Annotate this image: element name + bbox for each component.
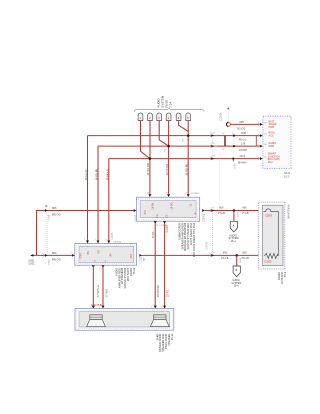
svg-text:806: 806 [52,206,57,210]
fuse pin 5 [176,113,181,121]
smart junction box (SJB) [263,116,291,168]
svg-text:B: B [236,268,238,272]
radio right pin arrow [202,209,205,212]
wire amp to antenna (shield run) [142,254,260,256]
svg-text:C2280B: C2280B [206,241,208,250]
svg-text:1174: 1174 [240,155,246,158]
wire from fuse pin 3 [159,121,168,146]
amp left pin arrow [72,254,75,257]
svg-text:15-4: 15-4 [231,240,236,243]
junction dot shield [235,254,238,257]
svg-text:16 RD-BK: 16 RD-BK [95,169,99,181]
svg-text:26 BN: 26 BN [152,203,155,210]
amp top pin arrows [86,241,89,244]
svg-text:S/R: S/R [144,210,147,214]
speaker box [75,309,174,331]
wire left vertical 1 [87,136,89,241]
ground wire horizontal [31,254,72,256]
speaker feed wire right (from radio) [164,223,166,306]
svg-text:606: 606 [242,206,247,209]
svg-text:179: 179 [241,143,246,146]
svg-text:C2280: C2280 [166,225,169,233]
left speaker [87,315,106,327]
svg-text:7.5A: 7.5A [168,102,172,108]
stub to off-page ref bottom [236,255,238,266]
dotted connector line coax/shield [211,213,213,253]
svg-text:15-2: 15-2 [283,271,287,277]
stub to off-page ref top [233,211,235,222]
off-page reference symbol top [230,221,237,232]
svg-text:57 BK: 57 BK [152,231,155,238]
svg-text:15 LG-VT: 15 LG-VT [84,169,88,181]
svg-text:31-EC: 31-EC [28,263,35,265]
svg-text:C2BA: C2BA [48,214,51,220]
wire from fuse pin 1 [141,121,150,159]
amplifier box (bottom center) [75,243,137,265]
antenna loop and mast [264,209,279,256]
wire left vertical 2 [97,146,99,241]
svg-text:22 RD-BU: 22 RD-BU [184,164,188,176]
wire row 1 horizontal from connector ring [230,123,259,125]
fuse label text (rotated) [157,95,173,107]
svg-text:C2280: C2280 [135,214,137,221]
svg-text:PWR: PWR [269,126,275,129]
svg-text:15-10: 15-10 [132,267,136,274]
svg-text:36 BK-LG: 36 BK-LG [105,169,109,180]
svg-text:G200: G200 [28,261,34,263]
svg-text:57 WH: 57 WH [105,289,108,297]
svg-text:W/O SONY RADIO SYS 15-8: W/O SONY RADIO SYS 15-8 [192,222,196,257]
svg-text:BK: BK [110,253,113,257]
fuse pin 6 [186,113,191,121]
twisted pair dots rows2-3 [233,135,235,137]
wire left vertical 3 [108,159,110,241]
wire from fuse pin 4 [168,121,170,194]
antenna pin arrow coax [260,209,263,212]
amp bottom pin arrows [92,265,95,268]
gray ticks before pins [257,123,259,126]
speaker box description text [155,333,174,352]
antenna pin arrow shield [260,254,263,257]
off-page reference symbol bottom [233,266,240,277]
svg-text:BN: BN [87,251,90,255]
svg-text:23 RD: 23 RD [166,290,169,297]
in-line connector coax [211,209,214,212]
svg-text:606: 606 [219,206,224,209]
right speaker [150,315,169,327]
in-line connector C2BA top [45,209,48,212]
amp output wire right [102,265,104,306]
svg-text:PK-LB: PK-LB [221,257,229,260]
svg-text:23-: 23- [165,214,168,218]
svg-text:C228: C228 [210,133,216,135]
radio top pin arrows [148,194,151,197]
svg-text:S603: S603 [240,257,242,263]
connector ring C100 on row 1 [227,123,231,127]
svg-text:S602: S602 [237,211,239,217]
wire row 3 horizontal [98,145,260,147]
svg-text:1106: 1106 [241,132,247,135]
in-line connector C2BA bottom [45,254,48,257]
radio left pin arrow [134,209,137,212]
left branch wire (vertical + horizontals) [37,211,134,256]
ground end arrow [31,254,34,257]
junction dot row4/pins 1-2 [149,157,152,160]
svg-text:606: 606 [240,121,245,124]
svg-text:19 OG: 19 OG [170,202,173,209]
fuse pin 2 [148,113,153,121]
amp right pin arrow [139,254,142,257]
in-line connector arrow row2 [211,134,214,137]
in-line connector arrow row3 [211,145,214,148]
in-line connector shield [211,254,214,257]
junction dot coax [233,209,236,212]
svg-text:GND: GND [80,253,83,259]
wire center-left vertical to radio [149,159,151,194]
in-line connector arrow row4 [211,157,214,160]
svg-text:S-BA: S-BA [234,163,237,169]
svg-text:C2009: C2009 [265,262,272,264]
wire row 4 horizontal [109,158,260,160]
dotted connector line rows2-4 [211,132,213,158]
svg-text:C2280A: C2280A [191,192,199,195]
svg-text:BN-OG: BN-OG [52,213,61,217]
svg-text:C228: C228 [210,156,216,158]
svg-text:806: 806 [242,251,247,254]
antenna inner box [262,205,283,265]
svg-text:C3035: C3035 [112,232,114,239]
radio description text [177,222,196,257]
svg-text:15-12: 15-12 [170,333,174,340]
antenna coil zigzag [264,253,278,258]
svg-text:15-2: 15-2 [268,161,273,164]
svg-text:PN-LG: PN-LG [239,139,247,142]
wire from fuse pin 5 [179,121,189,132]
speaker box pin arrows [92,306,95,309]
wire row 2 horizontal [88,135,260,137]
SJB internal text row1 [268,120,280,164]
wire from fuse pin 6 [187,121,189,194]
svg-text:806: 806 [52,251,57,255]
svg-text:VT-LB: VT-LB [218,212,225,215]
junction dot row2/pins 5-6 [187,134,190,137]
svg-text:OG-RD: OG-RD [239,149,248,152]
antenna outer box [258,202,285,269]
svg-text:BN-OG: BN-OG [52,258,61,262]
svg-text:W/ANTENNA: W/ANTENNA [288,204,291,219]
junction dot row3/pins 3-4 [167,145,170,148]
speaker feed wire left (from radio) [154,223,156,306]
svg-text:19 VT-OG: 19 VT-OG [165,164,169,176]
radio unit (center box) [137,197,200,221]
svg-text:C3035A: C3035A [113,240,121,243]
svg-text:C2280A: C2280A [220,112,223,121]
antenna description text [277,271,287,284]
svg-text:A: A [233,223,235,227]
svg-text:L-: L- [104,260,107,262]
pin arrows into SJB (right box) [260,123,263,126]
bridge wire rows 2-3 before box [255,136,257,147]
svg-text:ACC: ACC [269,135,274,138]
svg-text:DG-OG: DG-OG [237,128,246,131]
svg-text:OUT: OUT [130,253,133,259]
wire radio to antenna (coax run) [205,210,260,212]
faint dotted vertical below capacitor box [219,151,221,210]
dotted lead above ring [227,109,229,122]
svg-text:57 WH-LG: 57 WH-LG [97,285,100,297]
svg-text:15-4: 15-4 [234,285,239,288]
gray ticks before in-line arrows [44,134,211,257]
svg-text:15-2: 15-2 [284,176,290,179]
svg-text:23 OG-RD: 23 OG-RD [146,163,150,175]
fuse pin 3 [157,113,162,121]
svg-text:C2BA: C2BA [48,259,51,265]
svg-text:806: 806 [223,251,228,254]
svg-text:VT-LB: VT-LB [242,212,249,215]
svg-text:C2280B: C2280B [204,213,206,222]
svg-text:PK-LB: PK-LB [242,257,250,260]
fuse pin 1 [138,113,143,121]
svg-text:23 WH-RD: 23 WH-RD [157,285,160,297]
radio bottom pin arrows [154,221,157,224]
wire from fuse pin 2 [149,121,151,159]
splice dot on row 4 [232,158,234,160]
capacitor bar between row2 and row3 [216,132,233,150]
brace over fuse pins [134,108,204,112]
svg-text:PWR: PWR [269,145,275,148]
svg-text:BN-WH: BN-WH [238,162,247,165]
fuse pin 4 [166,113,171,121]
amp output wire left [92,265,94,306]
svg-text:C228: C228 [210,143,216,145]
amp description text [114,267,135,288]
svg-text:23+: 23+ [156,213,159,218]
svg-text:RD: RD [98,250,101,254]
dotted connector line C2BA [46,213,48,253]
svg-text:C2009: C2009 [265,215,272,217]
